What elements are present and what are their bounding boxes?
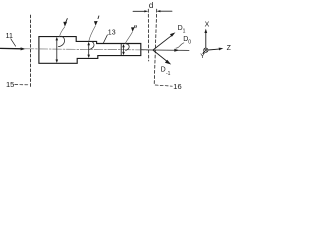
dimension line left part	[133, 10, 146, 12]
vibration double arrow in section 2	[88, 44, 90, 57]
leader of label D0	[176, 43, 184, 48]
svg-text:Y: Y	[200, 53, 205, 60]
curved leader below A2	[89, 26, 96, 41]
diffracted ray D1	[153, 35, 172, 50]
stepped horn body 13 outline	[39, 37, 141, 64]
coordinate origin symbol	[204, 48, 208, 52]
vibration double arrow in section 3	[123, 46, 125, 54]
leader of label 13	[103, 35, 107, 43]
vibration arc in section 2	[89, 41, 94, 49]
joint line in end section	[120, 44, 122, 55]
leader of label 16	[155, 85, 172, 86]
Z axis arrow	[208, 49, 221, 50]
svg-text:D: D	[161, 66, 166, 73]
zero order ray D0 along axis	[153, 49, 189, 51]
svg-text:0: 0	[188, 39, 191, 45]
svg-text:15: 15	[6, 80, 14, 89]
dimension line right part	[159, 10, 172, 12]
diffracted ray D-1	[153, 50, 167, 62]
leader of label 11	[11, 39, 16, 46]
excitation arrow A3 with double prime	[133, 25, 136, 27]
optical axis chain line through horn	[25, 49, 152, 50]
svg-text:13: 13	[108, 29, 116, 36]
extension line at horn output face	[147, 9, 149, 61]
wire: incident light beam line 11	[0, 47, 23, 49]
svg-text:-1: -1	[166, 71, 171, 77]
svg-text:11: 11	[6, 33, 13, 40]
excitation arrow A2 with prime	[97, 16, 100, 19]
leader of label 15	[15, 84, 29, 86]
curved leader below A1	[60, 27, 65, 37]
axis stub between horn face and vertex	[141, 49, 153, 51]
extension line at output plane 16	[154, 9, 157, 84]
svg-text:X: X	[205, 22, 210, 29]
nodal plane dashed line 15	[30, 15, 32, 88]
vibration arc in section 1	[58, 36, 64, 46]
svg-text:1: 1	[183, 29, 186, 35]
curved leader below A3	[125, 32, 132, 44]
svg-text:d: d	[149, 1, 153, 10]
Y axis arrow	[203, 52, 204, 53]
X axis arrow	[205, 32, 207, 48]
vibration arc in section 3	[126, 44, 130, 51]
arrowhead of beam 11	[21, 47, 26, 50]
svg-text:Z: Z	[227, 45, 232, 52]
svg-text:16: 16	[173, 82, 181, 91]
excitation arrow A1 above section 1	[66, 19, 68, 23]
vibration double arrow in section 1	[56, 39, 58, 61]
